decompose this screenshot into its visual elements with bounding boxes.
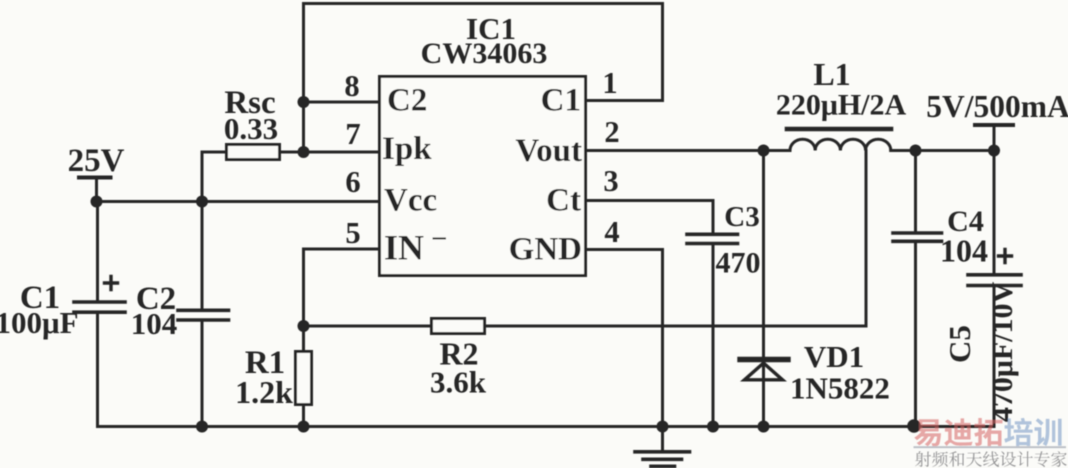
wire pin3 Ct lead	[586, 199, 713, 202]
svg-text:GND: GND	[509, 232, 582, 268]
svg-text:104: 104	[131, 306, 178, 341]
wire pin4 GND lead	[586, 248, 663, 251]
svg-text:4: 4	[604, 215, 619, 249]
wire bottom ground rail	[98, 425, 995, 428]
capacitor C4 104	[914, 151, 917, 234]
svg-text:3.6k: 3.6k	[430, 365, 487, 400]
node pin8 junction	[298, 96, 310, 108]
resistor R2 3.6k	[304, 325, 432, 328]
wire pin5 lead	[304, 248, 380, 251]
svg-text:Vout: Vout	[515, 133, 582, 169]
node C3/rail junction	[707, 421, 719, 433]
terminal 5V/500mA output	[975, 123, 1013, 127]
node C4 junction	[910, 145, 922, 157]
svg-text:C5: C5	[942, 325, 977, 363]
node GND-pin/rail junction	[657, 421, 669, 433]
wire feedback riser to L1 tap	[865, 151, 868, 327]
svg-text:Ipk: Ipk	[382, 131, 432, 167]
watermark divider line	[914, 446, 1067, 448]
wire R2 right to feedback riser	[485, 325, 867, 328]
svg-text:L1: L1	[813, 56, 850, 92]
wire Vcc rail (25V net)	[97, 200, 380, 203]
capacitor C2 104	[201, 202, 204, 311]
wire Rsc left lead	[202, 151, 227, 154]
svg-text:Vcc: Vcc	[384, 183, 437, 219]
capacitor C3 470	[687, 233, 738, 237]
svg-text:2: 2	[604, 115, 619, 149]
svg-text:6: 6	[345, 165, 360, 199]
svg-text:470: 470	[716, 247, 761, 280]
node R1/rail junction	[298, 421, 310, 433]
wire GND drop to bottom rail	[661, 250, 664, 427]
node VD1/rail junction	[758, 421, 770, 433]
inductor L1 220uH/2A	[790, 139, 891, 150]
node pin7 junction	[298, 146, 310, 158]
svg-text:1.2k: 1.2k	[235, 374, 293, 410]
svg-text:1N5822: 1N5822	[790, 371, 890, 406]
svg-text:104: 104	[940, 233, 988, 269]
svg-text:Ct: Ct	[546, 183, 581, 219]
svg-text:3: 3	[603, 164, 618, 198]
capacitor C1 100uF	[96, 202, 99, 301]
wire riser from top bus to pin7 node	[302, 4, 305, 153]
wire pin7 lead	[280, 151, 380, 154]
node feedback junction (IN-)	[298, 320, 310, 332]
svg-text:CW34063: CW34063	[421, 37, 548, 70]
svg-text:8: 8	[344, 69, 359, 103]
svg-text:0.33: 0.33	[224, 111, 278, 146]
watermark logo text yidituo-peixun	[914, 418, 1061, 447]
node output junction	[988, 145, 1000, 157]
op-amp/regulator IC U1 CW34063 body	[380, 77, 586, 276]
wire pin8 lead	[304, 101, 380, 104]
capacitor C5 470uF/10V	[993, 151, 996, 275]
wire Rsc to Vcc rail drop	[201, 152, 204, 202]
ground symbol	[661, 427, 664, 451]
svg-text:220μH/2A: 220μH/2A	[776, 89, 907, 122]
wire Vout lead to L1	[586, 149, 790, 152]
svg-text:100μF: 100μF	[0, 305, 79, 340]
node C4/rail junction	[907, 419, 921, 433]
terminal 25V input	[79, 176, 111, 180]
node Vout/VD1 junction	[758, 145, 770, 157]
watermark slogan text	[915, 451, 1067, 467]
svg-text:C3: C3	[724, 201, 759, 233]
diode VD1 1N5822	[762, 151, 765, 427]
svg-text:VD1: VD1	[804, 339, 864, 374]
node 25V rail junction	[91, 196, 103, 208]
plus sign of C1	[105, 277, 118, 290]
node C2/Rsc rail junction	[196, 196, 208, 208]
wire L1 to output	[891, 149, 994, 152]
svg-text:470μF/10V: 470μF/10V	[986, 282, 1019, 423]
svg-text:5: 5	[345, 216, 360, 250]
wire Ct drop to C3	[712, 201, 715, 234]
wire pin5 drop to feedback node	[302, 249, 305, 326]
plus sign of C5	[999, 250, 1012, 263]
wire pin1 lead	[586, 99, 663, 102]
node C2/rail junction	[196, 421, 208, 433]
svg-text:C2: C2	[387, 83, 427, 119]
svg-text:7: 7	[345, 117, 360, 151]
wire riser top bus to pin1	[661, 4, 664, 101]
resistor Rsc	[227, 145, 280, 160]
resistor R1 1.2k	[302, 326, 305, 352]
svg-text:1: 1	[602, 66, 617, 100]
svg-text:25V: 25V	[68, 143, 125, 179]
svg-text:C1: C1	[541, 83, 581, 119]
wire top bus (pin8 net to pin1)	[304, 2, 663, 5]
svg-text:5V/500mA: 5V/500mA	[926, 89, 1068, 124]
